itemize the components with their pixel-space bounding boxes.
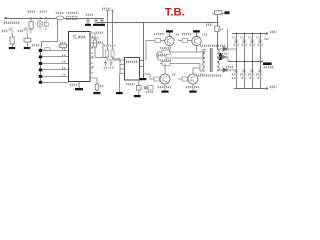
wire U4 right pin2	[140, 66, 144, 68]
wire pin2 to U1	[42, 56, 69, 58]
capacitor C9	[234, 70, 237, 72]
label KP707 VT4	[185, 86, 199, 88]
wire bar to VT1	[169, 33, 171, 37]
label VT3	[172, 74, 177, 76]
label above T1	[199, 45, 226, 47]
wire U3 down	[27, 34, 29, 38]
wire U1 ground stub	[78, 81, 80, 88]
resistor R11	[111, 50, 114, 57]
label left of U3	[17, 30, 23, 32]
label 47uF left	[225, 66, 234, 68]
label under snubber	[146, 91, 153, 93]
connector pad 3	[39, 62, 42, 65]
wire VT3 emitter	[164, 84, 166, 91]
wire mid y58	[157, 52, 203, 58]
wire pin1 to U1	[42, 50, 69, 52]
wire VT3 base	[143, 74, 154, 79]
label right of C8	[265, 38, 269, 40]
wire vertical x107	[106, 11, 109, 51]
pin label 9	[91, 66, 94, 68]
wire x119.5 down to ground	[119, 74, 121, 93]
resistor R14	[162, 50, 170, 54]
capacitor C11	[250, 70, 253, 72]
connector X1 bus	[40, 48, 42, 83]
wire rail to R2	[30, 18, 32, 22]
connector pad 5	[39, 75, 42, 78]
label value R8	[98, 41, 102, 43]
node junction rail x88	[87, 18, 89, 20]
wire VT4 base	[178, 78, 182, 80]
wire T1 primary bottom	[200, 68, 205, 71]
label C8	[257, 44, 263, 46]
wire U1 pin14 stub	[90, 43, 103, 58]
resistor R2	[29, 22, 33, 30]
capacitor C side of VT5	[44, 23, 48, 27]
ground bar VT3	[161, 91, 168, 93]
label +B	[270, 31, 277, 34]
capacitor C8	[258, 40, 261, 42]
node junction com x236	[236, 61, 238, 63]
label plus C8	[256, 36, 258, 38]
ground bar C1	[85, 24, 91, 26]
ground bar VT4	[189, 91, 196, 93]
diode VD3	[225, 11, 230, 14]
ground bar R9	[93, 92, 100, 94]
transistor VT3	[160, 74, 170, 84]
label common	[263, 66, 274, 68]
label above R16	[160, 59, 171, 61]
label right of R9	[100, 85, 104, 87]
transistor VT4	[188, 74, 198, 84]
wire secondary bottom	[217, 69, 223, 71]
resistor R10	[106, 50, 109, 57]
wire VT4 emitter	[192, 84, 194, 91]
label above x227	[217, 27, 219, 29]
wire output column x244	[244, 34, 246, 89]
svg-text:Т.В.: Т.В.	[165, 7, 185, 19]
pin label 13	[91, 46, 94, 48]
inductor L1	[56, 16, 64, 20]
node junction rail x46	[45, 17, 47, 19]
connector pad 4	[39, 69, 42, 72]
connector pad 1	[39, 49, 42, 52]
resistor R18	[182, 77, 188, 81]
label VT2	[203, 34, 208, 36]
capacitor C6	[242, 40, 245, 42]
node junction +B x244	[244, 33, 246, 35]
wire vertical x217	[217, 14, 219, 50]
label under T1	[198, 74, 222, 76]
resistor R15	[158, 56, 166, 60]
resistor R6	[66, 16, 71, 19]
capacitor C2	[94, 18, 97, 24]
wire U1 pin7 stub	[90, 78, 97, 84]
ground bar U1	[75, 88, 83, 90]
label C10	[240, 74, 247, 76]
node junction rail x96	[95, 18, 97, 20]
wire top +12V rail	[6, 18, 105, 20]
wire C4 to ground	[138, 90, 140, 95]
inductor L1 label	[55, 12, 64, 14]
wire bar to VT2	[196, 33, 198, 37]
wire VT1 emitter	[169, 46, 171, 52]
wire output column x252	[252, 34, 254, 89]
label +12, PCB	[3, 22, 20, 25]
transformer T1 primary winding	[203, 49, 205, 71]
label above R5	[59, 42, 66, 44]
wire U1 pin8 stub	[90, 72, 94, 74]
ground bar U4 left	[116, 92, 123, 94]
label above R15	[156, 54, 167, 56]
wire pin4 to U1	[42, 69, 69, 71]
label inside U4	[126, 61, 138, 64]
wire VD2 to column	[227, 69, 236, 71]
capacitor C5	[215, 26, 220, 32]
capacitor C12	[258, 70, 261, 72]
label C9 value	[232, 77, 238, 79]
transistor VT5	[37, 21, 43, 27]
wire R2 down	[30, 29, 32, 33]
wire R12 to VT1	[161, 40, 166, 42]
node junction x143 y66	[143, 65, 145, 67]
resistor R16	[162, 61, 170, 65]
wire mid y52	[157, 51, 205, 53]
label KP707 VT3	[157, 86, 171, 88]
wire output column x236	[236, 34, 238, 89]
wire R8 down	[94, 47, 96, 58]
wire R18 to VT4	[187, 78, 190, 80]
label VT4	[200, 74, 205, 76]
diode VD1	[223, 47, 227, 51]
resistor R9	[95, 84, 99, 90]
connector pad 6	[39, 81, 42, 84]
ground bar left2	[24, 47, 30, 49]
wire U1 pin12 stub	[90, 52, 94, 54]
node junction x143 y60	[143, 59, 145, 61]
wire R5 stub	[58, 45, 68, 47]
resistor R7	[72, 16, 77, 19]
wire pin6 to U1	[42, 82, 69, 84]
label C14	[103, 67, 109, 69]
label C6	[241, 44, 247, 46]
wire pin5 to U1	[42, 76, 69, 78]
node junction +B x252	[252, 33, 254, 35]
capacitor C1	[86, 18, 89, 24]
transistor VT2	[192, 36, 201, 45]
optocoupler U3 photodiode	[24, 28, 29, 35]
resistor R13	[182, 39, 188, 43]
resistor R4	[24, 38, 31, 42]
label above R10 R11	[104, 45, 115, 47]
label plus C6	[240, 36, 242, 38]
wire U1 pin15 stub	[90, 37, 99, 39]
label above VT5	[40, 11, 47, 13]
wire +B rail	[232, 33, 268, 35]
node junction rail x31	[30, 17, 32, 19]
wire VT4 collector	[193, 64, 200, 75]
label above R12	[154, 33, 164, 35]
label above R13	[181, 33, 191, 35]
label right of C5	[218, 28, 224, 30]
label right of C4	[143, 86, 148, 88]
label VT1	[176, 34, 181, 36]
resistor R8	[93, 40, 96, 47]
resistor R17	[154, 77, 160, 81]
wire vertical x46	[45, 18, 47, 30]
pin label 5	[62, 74, 66, 76]
transformer T1 core	[210, 48, 212, 72]
node junction +B x260	[260, 33, 262, 35]
wire VD1 to +B	[227, 48, 236, 50]
resistor R12	[155, 39, 161, 43]
wire VT1 base	[146, 41, 155, 61]
wire R9 to ground	[96, 90, 98, 92]
label 12V feed	[102, 8, 111, 10]
wire U1 pin13 stub	[90, 47, 94, 49]
bar common terminal	[263, 62, 272, 65]
pin label 1	[62, 48, 66, 50]
capacitor C10	[242, 70, 245, 72]
label PWM TL494	[32, 44, 41, 46]
label C11 value	[249, 77, 254, 79]
resistor R19	[215, 11, 223, 15]
node junction +B x236	[236, 33, 238, 35]
component snubber left of VT3	[148, 86, 153, 91]
node junction com x244	[244, 61, 246, 63]
pin label 4	[62, 67, 66, 69]
wire VT3 collector	[164, 64, 166, 75]
label C7	[249, 44, 255, 46]
capacitor C4	[137, 86, 142, 91]
pin label 3	[62, 61, 66, 63]
node junction com x260	[260, 61, 262, 63]
diode VD2	[223, 68, 227, 72]
wire common rail	[229, 61, 264, 63]
resistor R5	[60, 44, 67, 47]
wire vertical x227	[227, 29, 229, 50]
transformer T1 secondary winding	[217, 49, 219, 71]
ground bar left1	[9, 47, 15, 49]
label pin row left	[95, 32, 103, 34]
label left of C5	[206, 24, 213, 26]
capacitor C13	[234, 40, 237, 42]
bar VT1 collector	[166, 30, 173, 32]
capacitor C7	[250, 40, 253, 42]
ground bar C4	[134, 95, 141, 97]
wire vertical x143	[143, 23, 145, 79]
label C15	[110, 67, 115, 69]
label plus C13	[232, 36, 234, 38]
wire R13 to VT2	[188, 40, 193, 42]
transistor VT1	[165, 36, 174, 45]
label C9	[231, 74, 238, 76]
wire pin3 to U1	[42, 63, 69, 65]
wire mid y63.5	[160, 63, 200, 65]
wire U1 pin11 stub	[90, 57, 94, 59]
resistor R3	[10, 37, 14, 44]
capacitor C14	[104, 60, 107, 66]
wire R17 to VT3	[159, 78, 162, 80]
label left of U2	[1, 30, 8, 32]
wire VT2 base	[178, 40, 182, 42]
node junction rail x38	[40, 17, 42, 19]
svg-text:TL494: TL494	[72, 35, 85, 40]
bar T1 center tap	[219, 53, 222, 60]
label C12	[256, 74, 263, 76]
label above C2 C3	[85, 14, 93, 16]
wire U4 pin stubs left	[120, 65, 124, 74]
label -B	[270, 86, 277, 89]
capacitor C3	[100, 18, 103, 24]
label C10 value	[241, 77, 246, 79]
diode VD4	[222, 55, 226, 59]
bar VT2 collector	[193, 30, 200, 32]
wire R10 R11 to bus	[95, 57, 124, 74]
pin label 2	[62, 54, 66, 56]
wire loop x57 down to connector	[42, 19, 58, 49]
wire snubber horizontal y13	[213, 13, 230, 15]
capacitor C15	[109, 60, 112, 66]
op-amp U4 driver body	[125, 58, 140, 81]
label above pin1 wire	[45, 48, 50, 51]
wire T1 primary top	[204, 49, 206, 52]
label under U4	[126, 83, 135, 85]
ground bar x143	[140, 78, 147, 80]
label above R6 R7	[67, 12, 79, 14]
node junction com x252	[252, 61, 254, 63]
wire U4 bottom stub	[138, 80, 140, 86]
wire vertical x112.5	[111, 11, 114, 51]
label C12 value	[257, 77, 262, 79]
wire R3 to ground	[12, 44, 14, 47]
wire U1 pin10 stub	[90, 62, 94, 64]
label C13	[233, 44, 239, 46]
optocoupler U2 photodiode	[9, 28, 14, 35]
wire U4 right pin1	[140, 60, 144, 62]
label plus C7	[248, 36, 250, 38]
wire -B rail	[234, 88, 268, 90]
wire U1 pin16 stub	[90, 33, 95, 40]
wire output column x260	[260, 34, 262, 89]
label above VD4	[222, 53, 229, 55]
wire secondary top	[217, 48, 223, 50]
connector pad 2	[39, 56, 42, 59]
label C11	[248, 74, 255, 76]
label under U1	[70, 84, 77, 86]
wire R4 to ground	[27, 42, 29, 47]
node input terminal +12V	[4, 17, 6, 19]
pin label 11	[91, 56, 94, 58]
ground bar C3	[99, 24, 105, 26]
label above R2	[27, 11, 35, 13]
wire U1 pin9 stub	[90, 67, 94, 69]
wire VT2 emitter	[196, 46, 198, 52]
wire arrow terminal left of VT3	[144, 88, 148, 90]
wire U2 down	[12, 34, 14, 37]
pin label 15	[91, 36, 94, 38]
op-amp U1 TL494 body	[69, 32, 91, 82]
wire A mid horizontal	[97, 22, 218, 24]
label above R14	[160, 47, 171, 49]
ground bar C2	[93, 24, 99, 26]
wire secondary mid	[217, 57, 229, 61]
